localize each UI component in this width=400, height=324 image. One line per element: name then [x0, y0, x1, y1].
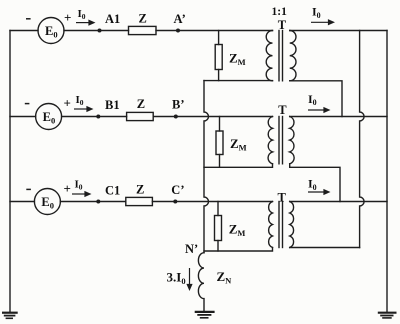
svg-text:Z: Z — [137, 97, 145, 111]
svg-text:B’: B’ — [172, 98, 185, 112]
svg-text:A1: A1 — [105, 12, 120, 26]
svg-text:T: T — [278, 103, 287, 117]
svg-text:Z: Z — [136, 183, 144, 197]
svg-text:N’: N’ — [185, 242, 198, 256]
svg-text:A’: A’ — [174, 12, 186, 26]
svg-text:1:1: 1:1 — [272, 6, 288, 18]
svg-text:C1: C1 — [105, 184, 120, 198]
svg-text:T: T — [278, 191, 287, 205]
svg-text:Z: Z — [139, 12, 147, 26]
svg-text:T: T — [278, 18, 287, 32]
svg-text:B1: B1 — [105, 98, 120, 112]
svg-text:+: + — [64, 181, 71, 196]
svg-text:+: + — [64, 95, 71, 110]
svg-text:C’: C’ — [171, 183, 184, 197]
svg-text:+: + — [64, 10, 71, 25]
